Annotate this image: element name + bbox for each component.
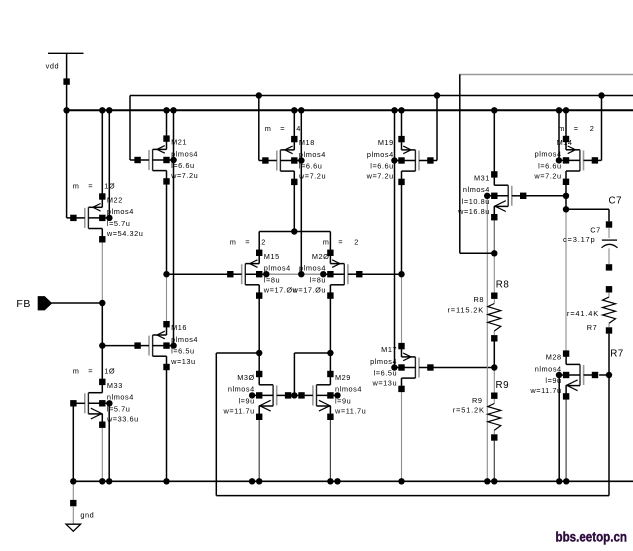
svg-text:M18: M18 — [299, 138, 315, 147]
svg-text:1Ø: 1Ø — [104, 181, 115, 190]
svg-text:=: = — [88, 181, 93, 190]
svg-text:l=6.5u: l=6.5u — [171, 347, 195, 356]
svg-text:l=6.6u: l=6.6u — [299, 162, 323, 171]
svg-text:M22: M22 — [107, 196, 123, 205]
svg-text:w=11.7u: w=11.7u — [223, 407, 255, 416]
svg-text:l=6.6u: l=6.6u — [370, 162, 394, 171]
svg-text:plmos4: plmos4 — [171, 149, 198, 158]
svg-text:l=9u: l=9u — [335, 397, 351, 406]
svg-text:nlmos4: nlmos4 — [228, 385, 255, 394]
svg-text:plmos4: plmos4 — [264, 264, 291, 273]
svg-text:=: = — [338, 238, 343, 247]
svg-text:plmos4: plmos4 — [370, 357, 397, 366]
svg-text:plmos4: plmos4 — [107, 207, 134, 216]
svg-text:l=6.5u: l=6.5u — [374, 369, 398, 378]
svg-text:l=8u: l=8u — [264, 275, 280, 284]
svg-text:m: m — [230, 238, 237, 247]
svg-text:1Ø: 1Ø — [104, 367, 115, 376]
svg-text:vdd: vdd — [46, 61, 60, 70]
svg-text:C7: C7 — [590, 226, 601, 235]
svg-text:plmos4: plmos4 — [367, 150, 394, 159]
svg-text:l=6.6u: l=6.6u — [538, 162, 562, 171]
svg-text:=: = — [280, 124, 285, 133]
svg-text:2: 2 — [590, 124, 595, 133]
svg-text:l=9u: l=9u — [545, 376, 561, 385]
svg-text:w=33.6u: w=33.6u — [106, 415, 139, 424]
svg-text:w=13u: w=13u — [371, 379, 397, 388]
svg-text:plmos4: plmos4 — [299, 264, 326, 273]
svg-text:R7: R7 — [610, 349, 624, 360]
svg-text:M3Ø: M3Ø — [237, 373, 255, 382]
svg-text:l=6.6u: l=6.6u — [171, 161, 195, 170]
svg-text:R8: R8 — [496, 280, 510, 291]
svg-text:plmos4: plmos4 — [535, 150, 562, 159]
svg-text:R8: R8 — [474, 295, 485, 304]
svg-text:4: 4 — [296, 124, 301, 133]
svg-text:w=7.2u: w=7.2u — [298, 172, 326, 181]
svg-text:M17: M17 — [381, 345, 397, 354]
svg-text:R9: R9 — [496, 380, 510, 391]
svg-text:w=7.2u: w=7.2u — [170, 171, 198, 180]
svg-text:FB: FB — [16, 298, 31, 310]
svg-text:nlmos4: nlmos4 — [463, 185, 490, 194]
svg-text:l=9u: l=9u — [239, 397, 255, 406]
svg-text:M14: M14 — [557, 138, 573, 147]
svg-text:C7: C7 — [609, 195, 623, 206]
svg-text:=: = — [574, 124, 579, 133]
svg-text:m: m — [265, 124, 272, 133]
svg-text:plmos4: plmos4 — [171, 335, 198, 344]
svg-text:M29: M29 — [335, 373, 351, 382]
svg-text:2: 2 — [261, 238, 266, 247]
svg-text:l=8u: l=8u — [310, 275, 326, 284]
svg-text:gnd: gnd — [80, 511, 94, 520]
svg-text:=: = — [245, 238, 250, 247]
svg-text:c=3.17p: c=3.17p — [563, 235, 596, 244]
svg-text:M2Ø: M2Ø — [312, 252, 330, 261]
svg-text:m: m — [558, 124, 565, 133]
svg-text:M21: M21 — [171, 138, 187, 147]
svg-text:M16: M16 — [171, 323, 187, 332]
svg-text:nlmos4: nlmos4 — [335, 385, 362, 394]
svg-text:m: m — [73, 367, 80, 376]
svg-text:M33: M33 — [107, 381, 123, 390]
svg-text:R9: R9 — [472, 396, 483, 405]
svg-text:M19: M19 — [378, 138, 394, 147]
svg-text:l=5.7u: l=5.7u — [107, 219, 131, 228]
svg-text:bbs.eetop.cn: bbs.eetop.cn — [556, 530, 628, 545]
svg-text:w=54.32u: w=54.32u — [106, 229, 143, 238]
svg-text:l=5.7u: l=5.7u — [107, 404, 131, 413]
svg-text:w=7.2u: w=7.2u — [533, 172, 561, 181]
svg-text:r=51.2K: r=51.2K — [453, 405, 485, 414]
svg-text:w=13u: w=13u — [170, 357, 196, 366]
svg-text:m: m — [323, 238, 330, 247]
svg-text:=: = — [88, 367, 93, 376]
svg-text:m: m — [73, 181, 80, 190]
svg-text:M28: M28 — [546, 353, 562, 362]
svg-text:plmos4: plmos4 — [299, 150, 326, 159]
svg-text:M15: M15 — [264, 252, 280, 261]
svg-text:w=16.8u: w=16.8u — [457, 207, 490, 216]
svg-text:r=41.4K: r=41.4K — [567, 309, 599, 318]
svg-text:l=10.8u: l=10.8u — [462, 197, 490, 206]
svg-text:r=115.2K: r=115.2K — [448, 306, 485, 315]
svg-text:nlmos4: nlmos4 — [535, 364, 562, 373]
svg-text:w=11.7u: w=11.7u — [334, 407, 366, 416]
svg-text:M31: M31 — [474, 173, 490, 182]
svg-text:R7: R7 — [587, 323, 598, 332]
svg-text:nlmos4: nlmos4 — [107, 393, 134, 402]
svg-text:w=7.2u: w=7.2u — [366, 172, 394, 181]
svg-text:w=17.Øu: w=17.Øu — [292, 285, 326, 294]
svg-text:w=11.7u: w=11.7u — [529, 386, 561, 395]
svg-text:2: 2 — [354, 238, 359, 247]
